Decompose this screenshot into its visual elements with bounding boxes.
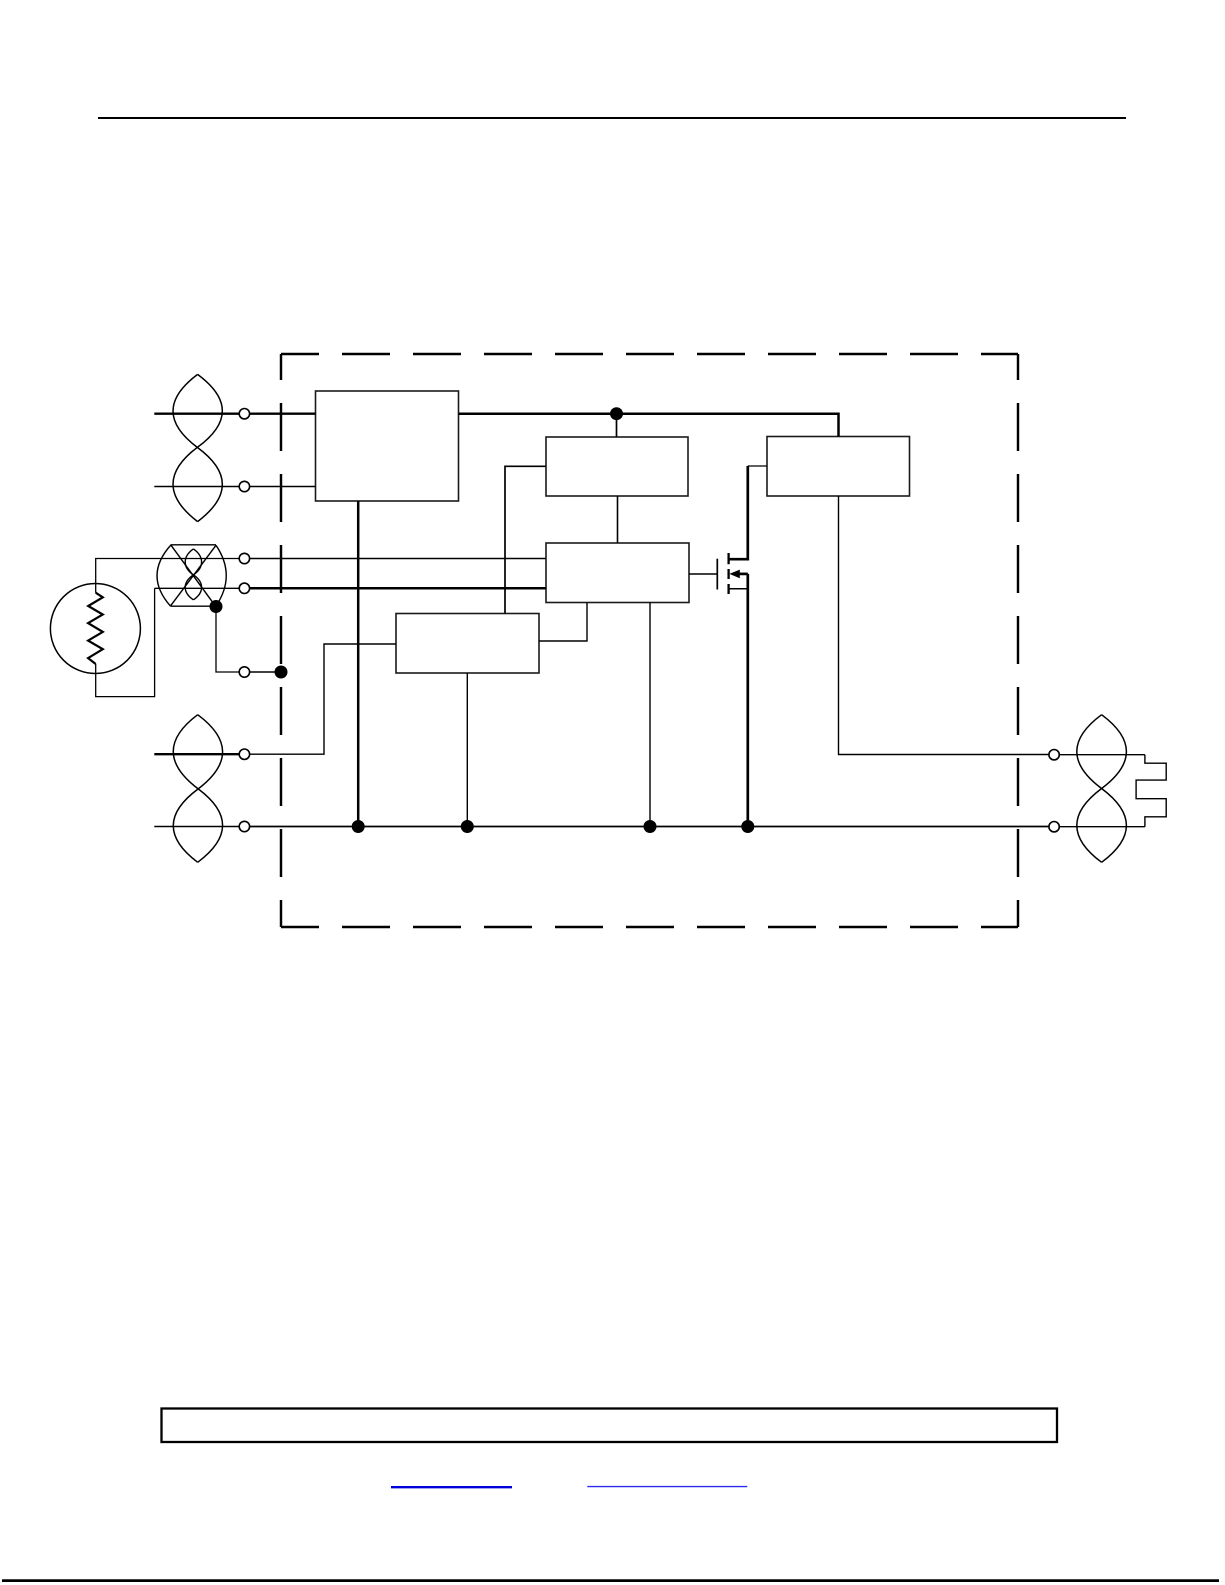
Q1 source lead xyxy=(729,588,748,590)
wire U3 bottom to U4 right xyxy=(539,603,587,642)
terminal pin5 xyxy=(239,667,249,677)
Q1 source vertical to rail xyxy=(746,574,749,827)
Q1 gate bar xyxy=(716,559,718,590)
twisted pair symbol right output xyxy=(1077,715,1127,863)
thermistor RT1 xyxy=(50,584,140,674)
wire ground rail xyxy=(250,826,1049,828)
node rail-Q1 xyxy=(741,820,754,833)
wire U3 bottom to rail xyxy=(649,603,651,827)
wire row1 stub xyxy=(154,413,239,415)
header rule xyxy=(98,117,1126,119)
block U1 rectifier xyxy=(316,391,459,501)
wire row4 pin to U3 xyxy=(250,587,546,590)
block U5 xyxy=(767,437,910,497)
Q1 channel bars xyxy=(727,553,729,594)
terminal pin6 xyxy=(239,749,249,759)
terminal pin4 xyxy=(239,583,249,593)
wire row2 stub xyxy=(154,486,239,488)
block U3 xyxy=(546,543,689,603)
wire U3 right to Q1 gate xyxy=(689,573,717,575)
wire thermistor top to row3 xyxy=(96,559,240,593)
terminal pin2 xyxy=(239,481,249,491)
note box xyxy=(162,1409,1058,1443)
block U2 xyxy=(546,437,688,496)
wire row5 pin to U4 xyxy=(250,644,396,754)
terminal out2 xyxy=(1049,822,1059,832)
terminal out1 xyxy=(1049,750,1059,760)
wire row6 stub xyxy=(154,826,239,828)
link underline 1 xyxy=(391,1486,512,1488)
wire rail to U2 top xyxy=(616,414,618,437)
dashed IC boundary box xyxy=(281,354,1018,927)
wire row3 pin to U3 xyxy=(250,558,546,560)
twisted pair symbol rows5-6 xyxy=(173,715,222,863)
node rail-U3 xyxy=(644,820,657,833)
twisted sensor cable T1 xyxy=(157,545,226,607)
wire U4 bottom to rail xyxy=(466,673,468,827)
wire right pin1 to connector xyxy=(1059,754,1145,756)
footer rule xyxy=(2,1579,1219,1582)
wire U5 bottom to right pin xyxy=(839,496,1050,755)
Q1 drain lead xyxy=(729,466,748,559)
node rail-U4 xyxy=(461,820,474,833)
wire U2 bottom to U3 top xyxy=(617,496,619,543)
wire U1 bottom to rail xyxy=(357,501,360,827)
node rail-U2 xyxy=(610,407,623,420)
node rail-U1 xyxy=(352,820,365,833)
wire top rail U1 to U5 xyxy=(459,414,839,437)
wire sense pin to boundary node xyxy=(250,671,281,673)
wire thermistor bottom loop to row4 xyxy=(96,588,155,696)
wire U2 left to U4 top xyxy=(505,466,546,613)
wire row5 stub xyxy=(154,753,239,755)
connector J1 plug xyxy=(1136,755,1166,827)
Q1 body lead xyxy=(738,573,748,576)
Q1 body arrow xyxy=(729,570,739,579)
link underline 2 xyxy=(587,1486,747,1488)
terminal pin1 xyxy=(239,409,249,419)
terminal pin7 xyxy=(239,821,249,831)
wire U5 left stub to Q1 drain xyxy=(748,465,767,467)
block U4 xyxy=(396,614,539,674)
wire twist tap down to sense pin xyxy=(216,607,239,673)
wire row2 pin to U1 xyxy=(250,486,316,488)
node twist tap xyxy=(210,600,223,613)
wire right pin2 to connector xyxy=(1059,826,1145,828)
node sense boundary xyxy=(275,666,288,679)
terminal pin3 xyxy=(239,553,249,563)
wire row1 pin to U1 xyxy=(250,413,316,415)
twisted pair symbol rows1-2 xyxy=(173,374,222,521)
wire row4 through twist xyxy=(155,587,240,589)
